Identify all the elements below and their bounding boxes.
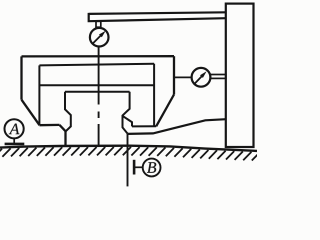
stand arm [89,12,226,22]
workpiece right chamfer [156,95,174,127]
dial indicator U1 stem [98,46,100,104]
datum B leader [134,166,143,168]
dial indicator U2 mount to column [210,75,226,79]
datum A circle [5,119,24,138]
right foot step [123,116,132,126]
dial indicator U2 left stem [175,76,192,78]
dial indicator U2 needle arrowhead [200,71,207,78]
stand column [226,4,254,147]
datum A leader stem [13,138,15,143]
bottom edge left [40,124,60,127]
window right wall [153,64,155,127]
window top edge [39,64,154,66]
surface plate ground line [0,146,257,151]
workpiece top edge [22,55,175,58]
window left wall [38,65,40,125]
left foot inner chamfer ledge and slot wall [65,92,71,132]
centerline dashes [98,112,100,147]
workpiece left chamfer [22,100,40,126]
datum B letter [147,162,156,173]
datum A bar [5,143,25,146]
inner bottom edge right [132,125,156,127]
dial indicator U1 needle [93,35,102,44]
datum B extension line [127,134,129,187]
dial indicator U2 body [192,68,211,87]
right slot wall ledge and chamfer [123,92,130,134]
datum B bar [133,160,136,175]
lower bottom edge and base slope to column [128,119,226,134]
datum B circle [143,159,161,177]
window bottom shelf line [39,84,154,86]
datum A letter [9,124,20,135]
dial indicator U1 body [90,28,109,47]
slot roof [65,91,130,93]
workpiece left edge [20,56,22,99]
dial indicator U1 needle arrowhead [99,31,106,38]
dial indicator U1 clamp neck [96,21,101,27]
ground hatching [0,147,260,161]
workpiece right edge [173,56,175,94]
dial indicator U2 needle [195,76,203,84]
left foot outer chamfer and contact [60,125,66,146]
